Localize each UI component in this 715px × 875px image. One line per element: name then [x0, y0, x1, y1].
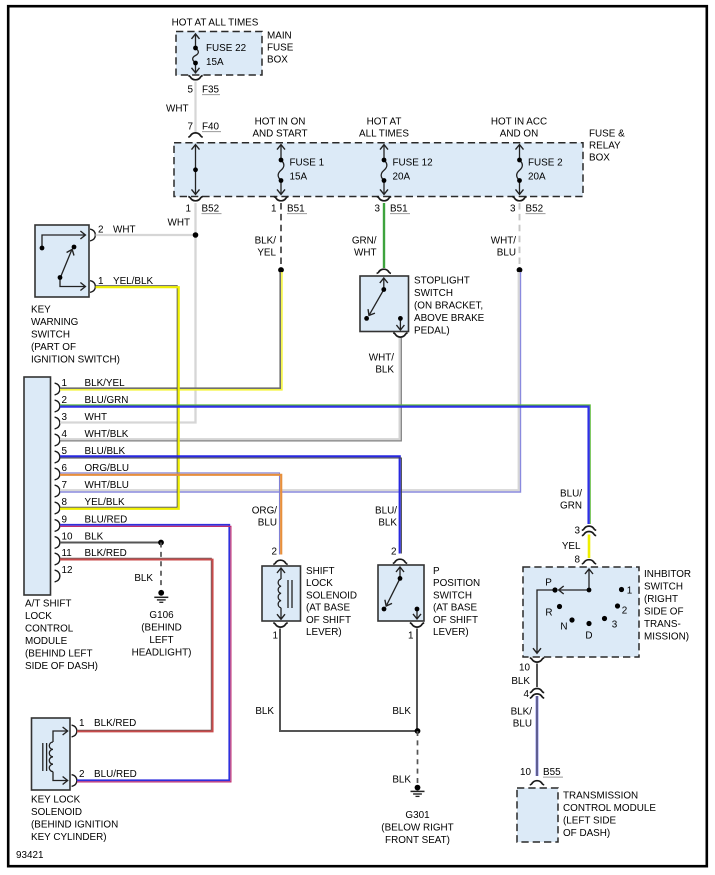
P position switch box [378, 565, 424, 621]
svg-text:B52: B52 [526, 203, 544, 214]
svg-text:B51: B51 [287, 203, 305, 214]
svg-text:10: 10 [519, 662, 530, 673]
svg-text:10: 10 [62, 531, 73, 542]
svg-text:BLK/RED: BLK/RED [94, 718, 136, 729]
svg-text:FUSE &: FUSE & [589, 128, 625, 139]
svg-text:N: N [560, 621, 567, 632]
ground G106 [154, 590, 168, 602]
svg-text:3: 3 [575, 525, 581, 536]
svg-text:3: 3 [612, 619, 618, 630]
FUSE 2 symbol [517, 145, 523, 195]
svg-text:FUSE 1: FUSE 1 [290, 158, 325, 169]
svg-text:KEY: KEY [31, 304, 51, 315]
shift lock solenoid box [262, 566, 301, 621]
svg-text:BLU/: BLU/ [375, 505, 397, 516]
svg-text:SOLENOID: SOLENOID [306, 590, 357, 601]
module pin 2 arc [55, 400, 60, 412]
svg-text:BLK/RED: BLK/RED [85, 548, 127, 559]
module pin 8 arc [55, 502, 60, 514]
svg-text:P: P [545, 577, 552, 588]
svg-text:3: 3 [510, 203, 516, 214]
main fuse box (dashed) [176, 32, 262, 76]
svg-text:(ON BRACKET,: (ON BRACKET, [414, 300, 483, 311]
svg-text:YEL: YEL [257, 247, 276, 258]
svg-text:BLK/YEL: BLK/YEL [85, 378, 126, 389]
module pin 5 arc [55, 451, 60, 463]
svg-text:MODULE: MODULE [25, 636, 68, 647]
svg-text:AND START: AND START [252, 128, 307, 139]
svg-text:11: 11 [62, 548, 73, 559]
wire BLU/RED module pin 9 to key lock solenoid pin 2 [60, 525, 229, 781]
svg-text:BLU/RED: BLU/RED [94, 769, 137, 780]
svg-text:1: 1 [273, 630, 279, 641]
connector cup under fuse & relay box x=195.5 [188, 197, 202, 201]
wire BLK inhibitor pin 10 to connector 4 [536, 664, 538, 688]
svg-text:12: 12 [62, 565, 73, 576]
svg-text:F40: F40 [202, 121, 220, 132]
svg-text:2: 2 [79, 769, 85, 780]
svg-text:TRANSMISSION: TRANSMISSION [563, 790, 638, 801]
svg-text:ALL TIMES: ALL TIMES [359, 128, 409, 139]
svg-text:(AT BASE: (AT BASE [306, 603, 350, 614]
svg-text:2: 2 [62, 395, 68, 406]
module pin 7 arc [55, 485, 60, 497]
svg-text:WHT: WHT [166, 103, 188, 114]
svg-text:1: 1 [408, 630, 414, 641]
svg-text:STOPLIGHT: STOPLIGHT [414, 275, 470, 286]
svg-text:OF SHIFT: OF SHIFT [433, 615, 478, 626]
fuse 22 15A symbol [193, 34, 199, 74]
wire BLK/YEL to module pin 1 [60, 272, 280, 388]
svg-text:FUSE 22: FUSE 22 [206, 43, 246, 54]
svg-text:ORG/BLU: ORG/BLU [85, 463, 129, 474]
svg-text:D: D [585, 630, 592, 641]
wire WHT/BLU to module pin 7 [60, 272, 519, 490]
module pin 10 arc [55, 537, 60, 549]
svg-text:INHBITOR: INHBITOR [644, 569, 691, 580]
svg-text:1: 1 [627, 585, 633, 596]
svg-text:A/T SHIFT: A/T SHIFT [25, 598, 71, 609]
svg-text:BLK/: BLK/ [511, 706, 533, 717]
svg-text:G106: G106 [149, 610, 174, 621]
svg-text:9: 9 [62, 514, 68, 525]
wire BLU/BLK module pin 5 to P position switch [60, 456, 400, 553]
svg-text:BLK: BLK [85, 531, 104, 542]
inhibitor switch box (dashed) [523, 567, 639, 657]
svg-text:BLU/RED: BLU/RED [85, 514, 128, 525]
svg-text:(PART OF: (PART OF [31, 342, 76, 353]
svg-text:BLU: BLU [497, 247, 516, 258]
svg-text:1: 1 [79, 718, 85, 729]
svg-text:YEL: YEL [562, 541, 581, 552]
svg-text:BLK: BLK [392, 706, 411, 717]
wire BLK dashed to G301 [417, 731, 419, 785]
svg-text:BLU: BLU [513, 718, 532, 729]
module pin 3 arc [55, 417, 60, 429]
connector 8 cap above inhibitor [582, 560, 596, 564]
svg-text:HOT AT: HOT AT [367, 116, 402, 127]
svg-text:WHT: WHT [168, 218, 190, 229]
svg-text:BOX: BOX [589, 152, 610, 163]
svg-text:6: 6 [62, 463, 68, 474]
svg-text:4: 4 [62, 429, 68, 440]
svg-text:WHT: WHT [354, 247, 376, 258]
svg-text:TRANS-: TRANS- [644, 619, 681, 630]
svg-text:B55: B55 [543, 767, 561, 778]
svg-text:LEVER): LEVER) [306, 627, 342, 638]
wire BLK shift lock solenoid pin 1 to G301 junction [280, 629, 418, 732]
svg-text:5: 5 [188, 84, 194, 95]
svg-text:15A: 15A [290, 171, 308, 182]
svg-text:BLK: BLK [134, 573, 153, 584]
wire ORG/BLU module pin 6 to shift lock solenoid [60, 473, 280, 555]
svg-text:2: 2 [272, 546, 278, 557]
connector cup under fuse & relay box x=519.5 [512, 197, 526, 201]
fuse & relay box (dashed) [174, 143, 583, 197]
svg-text:WHT/BLU: WHT/BLU [85, 480, 129, 491]
svg-text:GRN: GRN [560, 500, 582, 511]
connector F35 cup under main fuse box [188, 76, 202, 80]
FUSE 12 symbol [381, 145, 387, 195]
svg-text:FUSE 2: FUSE 2 [528, 158, 563, 169]
svg-text:CONTROL MODULE: CONTROL MODULE [563, 803, 656, 814]
svg-text:FUSE 12: FUSE 12 [393, 158, 433, 169]
svg-text:BLK: BLK [375, 364, 394, 375]
svg-text:SOLENOID: SOLENOID [31, 807, 82, 818]
svg-text:YEL/BLK: YEL/BLK [113, 276, 153, 287]
wire WHT (F35 to F40) [194, 82, 196, 133]
svg-text:(AT BASE: (AT BASE [433, 603, 477, 614]
svg-text:F35: F35 [202, 84, 220, 95]
svg-text:BLK: BLK [378, 517, 397, 528]
svg-text:BLK: BLK [511, 676, 530, 687]
svg-text:WARNING: WARNING [31, 317, 78, 328]
key lock solenoid box [32, 718, 71, 790]
svg-text:R: R [545, 607, 552, 618]
svg-text:IGNITION SWITCH): IGNITION SWITCH) [31, 354, 120, 365]
wire BLK module pin 10 to G106 [60, 542, 161, 544]
svg-text:B51: B51 [390, 203, 408, 214]
wire BLU/GRN module pin 2 to inhibitor connector [60, 405, 590, 524]
svg-text:20A: 20A [393, 171, 411, 182]
connector F40 cap above fuse & relay box [188, 133, 202, 137]
svg-text:WHT/: WHT/ [491, 235, 516, 246]
inline connector 3 double caps [582, 526, 596, 530]
svg-text:20A: 20A [528, 171, 546, 182]
connector cup under fuse & relay box x=281 [274, 197, 288, 201]
svg-text:WHT: WHT [113, 224, 135, 235]
svg-text:ABOVE BRAKE: ABOVE BRAKE [414, 313, 485, 324]
svg-text:FRONT SEAT): FRONT SEAT) [385, 835, 450, 846]
svg-text:1: 1 [186, 203, 192, 214]
svg-text:RELAY: RELAY [589, 140, 621, 151]
svg-text:2: 2 [622, 605, 628, 616]
svg-text:HOT IN ON: HOT IN ON [255, 116, 306, 127]
module pin 4 arc [55, 434, 60, 446]
wire BLK/BLU connector 4 to TCM B55 [536, 696, 539, 776]
svg-text:G301: G301 [405, 810, 430, 821]
connector 10 cup below inhibitor [530, 658, 544, 662]
svg-text:3: 3 [62, 412, 68, 423]
TCM box (dashed) [517, 788, 558, 842]
wire GRN/WHT from B51-3 to stoplight switch [383, 203, 385, 268]
svg-text:(BELOW RIGHT: (BELOW RIGHT [381, 823, 453, 834]
svg-text:FUSE: FUSE [267, 43, 294, 54]
svg-text:KEY CYLINDER): KEY CYLINDER) [31, 832, 107, 843]
module pin 1 arc [55, 383, 60, 395]
svg-text:YEL/BLK: YEL/BLK [85, 497, 125, 508]
svg-text:OF SHIFT: OF SHIFT [306, 615, 351, 626]
wire BLK/RED module pin 11 to key lock solenoid pin 1 [60, 558, 211, 730]
svg-text:BLU: BLU [258, 517, 277, 528]
wire WHT from B52-1 down to module pin 3, with branch to key warning pin 2 [60, 203, 196, 423]
svg-text:P: P [433, 566, 440, 577]
svg-text:B52: B52 [202, 203, 220, 214]
internal wire with junction (x=195.5) [195, 145, 197, 195]
svg-text:7: 7 [188, 121, 194, 132]
svg-text:HEADLIGHT): HEADLIGHT) [132, 648, 192, 659]
ground G301 [411, 785, 425, 797]
svg-text:(BEHIND IGNITION: (BEHIND IGNITION [31, 819, 118, 830]
inline connector 4 double caps [530, 688, 544, 692]
svg-text:5: 5 [62, 446, 68, 457]
svg-text:1: 1 [98, 276, 104, 287]
svg-text:SWITCH: SWITCH [433, 590, 472, 601]
svg-text:(RIGHT: (RIGHT [644, 594, 678, 605]
svg-text:POSITION: POSITION [433, 578, 480, 589]
module pin 12 arc [55, 570, 60, 582]
svg-text:LEFT: LEFT [149, 635, 173, 646]
FUSE 1 symbol [278, 145, 284, 195]
svg-text:HOT AT ALL TIMES: HOT AT ALL TIMES [172, 18, 259, 29]
svg-text:8: 8 [62, 497, 68, 508]
wire WHT/BLU dashed from B52-3 [519, 203, 521, 266]
svg-text:MISSION): MISSION) [644, 632, 689, 643]
key warning switch box [35, 225, 89, 297]
svg-text:(BEHIND: (BEHIND [141, 623, 182, 634]
svg-text:BLU/: BLU/ [560, 488, 582, 499]
wire WHT/BLK from stoplight switch to module pin 4 [60, 338, 400, 439]
svg-text:(LEFT SIDE: (LEFT SIDE [563, 815, 616, 826]
svg-text:BLK/: BLK/ [255, 235, 277, 246]
svg-text:WHT/BLK: WHT/BLK [85, 429, 129, 440]
cup below stoplight switch [393, 333, 407, 337]
wire BLK P position switch pin 1 to G301 junction [416, 629, 418, 732]
svg-text:CONTROL: CONTROL [25, 623, 74, 634]
svg-text:BLK: BLK [255, 706, 274, 717]
svg-text:BLU/GRN: BLU/GRN [85, 395, 129, 406]
svg-text:BLU/BLK: BLU/BLK [85, 446, 126, 457]
A/T shift lock control module box [24, 377, 51, 595]
stoplight switch box [360, 276, 409, 332]
svg-text:MAIN: MAIN [267, 31, 292, 42]
svg-text:2: 2 [391, 546, 397, 557]
wire YEL/BLK key warning pin 1 to module pin 8 [60, 286, 177, 508]
svg-text:4: 4 [524, 689, 530, 700]
wire YEL inhibitor connector 3 to 8 [588, 535, 591, 559]
svg-text:1: 1 [62, 378, 68, 389]
module pin 11 arc [55, 553, 60, 565]
svg-text:WHT: WHT [85, 412, 107, 423]
svg-text:PEDAL): PEDAL) [414, 325, 450, 336]
svg-text:AND ON: AND ON [500, 128, 538, 139]
svg-text:GRN/: GRN/ [352, 235, 377, 246]
svg-text:LEVER): LEVER) [433, 627, 469, 638]
svg-text:3: 3 [375, 203, 381, 214]
svg-text:1: 1 [271, 203, 277, 214]
wire BLK/YEL dashed from B51-1 [280, 203, 282, 266]
svg-text:SIDE OF: SIDE OF [644, 607, 684, 618]
svg-text:93421: 93421 [16, 850, 44, 861]
svg-text:2: 2 [98, 224, 104, 235]
svg-text:15A: 15A [206, 57, 224, 68]
svg-text:SWITCH: SWITCH [414, 288, 453, 299]
svg-text:LOCK: LOCK [306, 578, 333, 589]
svg-text:OF DASH): OF DASH) [563, 828, 610, 839]
svg-text:7: 7 [62, 480, 68, 491]
svg-text:SWITCH: SWITCH [31, 329, 70, 340]
svg-text:10: 10 [520, 767, 531, 778]
cap above stoplight switch [377, 269, 391, 273]
svg-text:LOCK: LOCK [25, 611, 52, 622]
connector B55 cap above TCM [530, 781, 544, 785]
svg-text:SWITCH: SWITCH [644, 582, 683, 593]
svg-text:KEY LOCK: KEY LOCK [31, 794, 81, 805]
connector cup under fuse & relay box x=384 [377, 197, 391, 201]
svg-text:ORG/: ORG/ [252, 505, 277, 516]
svg-text:WHT/: WHT/ [369, 352, 394, 363]
svg-text:HOT IN ACC: HOT IN ACC [491, 116, 547, 127]
module pin 9 arc [55, 520, 60, 532]
svg-text:(BEHIND LEFT: (BEHIND LEFT [25, 648, 93, 659]
svg-text:SIDE OF DASH): SIDE OF DASH) [25, 661, 98, 672]
module pin 6 arc [55, 468, 60, 480]
svg-text:BLK: BLK [392, 774, 411, 785]
svg-text:BOX: BOX [267, 55, 288, 66]
svg-text:SHIFT: SHIFT [306, 566, 335, 577]
svg-text:8: 8 [575, 554, 581, 565]
